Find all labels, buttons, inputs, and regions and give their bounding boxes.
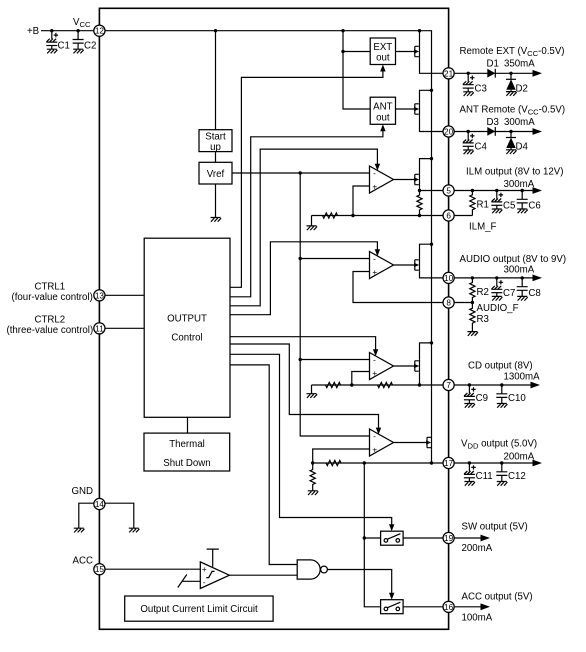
wire startup chain <box>215 31 217 218</box>
svg-text:Shut Down: Shut Down <box>163 458 210 469</box>
wire U4 noninverting feedback tap <box>313 449 370 463</box>
svg-text:Output Current Limit Circuit: Output Current Limit Circuit <box>140 604 258 615</box>
svg-text:ACC output (5V): ACC output (5V) <box>462 592 533 603</box>
capacitor C1 <box>46 31 70 54</box>
wire U5 output to NAND <box>229 574 297 576</box>
wire supply into SW switch <box>364 537 380 539</box>
svg-text:CTRL2: CTRL2 <box>35 314 66 325</box>
wire U2 noninverting feedback tap to pin 8 <box>353 272 443 303</box>
svg-text:C11: C11 <box>476 471 493 482</box>
svg-text:14: 14 <box>95 500 105 509</box>
switch S1 SW <box>381 531 404 545</box>
pin 21 <box>443 68 454 79</box>
threshold slash marker <box>178 575 187 588</box>
svg-text:+B: +B <box>27 26 39 37</box>
pin 13 <box>94 290 105 301</box>
transistor Q1 EXT (pin 21 driver) <box>396 45 420 59</box>
wire pin 17 output line <box>454 462 533 464</box>
node D2 junction <box>509 72 512 75</box>
transistor Q2 ANT (pin 20 driver) <box>396 102 420 116</box>
label CTRL2 <box>7 314 94 336</box>
svg-text:Vref: Vref <box>207 169 225 180</box>
svg-text:C5: C5 <box>503 201 515 212</box>
wire ILM divider to ground <box>311 216 313 226</box>
svg-text:C8: C8 <box>528 288 540 299</box>
svg-text:ANT Remote (VCC-0.5V): ANT Remote (VCC-0.5V) <box>460 104 566 116</box>
transistor Q4 AUDIO <box>394 258 420 272</box>
node junction C1 <box>50 29 53 32</box>
svg-text:-: - <box>373 432 376 441</box>
svg-text:7: 7 <box>446 381 451 390</box>
wire Q3 drain to pin 5 <box>420 186 444 190</box>
pin 6 <box>443 210 454 221</box>
wire pin 6 external line <box>454 215 472 217</box>
arrow pin 17 output <box>533 460 543 467</box>
node C9 junction <box>468 383 471 386</box>
wire enable SW switch <box>230 354 392 527</box>
node C6 junction <box>521 189 524 192</box>
arrow into ANT out <box>380 124 385 131</box>
wire enable ANT <box>230 128 383 296</box>
ground VDD divider <box>308 491 319 495</box>
block ANT out <box>370 97 395 124</box>
wire VDD supply to switches <box>364 463 380 607</box>
svg-text:C10: C10 <box>508 393 526 404</box>
node C11 junction <box>468 461 471 464</box>
svg-text:300mA: 300mA <box>504 179 535 190</box>
wire NAND output to ACC switch <box>327 570 391 596</box>
svg-text:C2: C2 <box>84 41 96 52</box>
op-amp U5 ACC comparator <box>200 562 229 589</box>
resistor VDD internal lower divider <box>310 463 315 491</box>
node C8 junction <box>521 276 524 279</box>
node ILM feedback line junction <box>418 214 421 217</box>
node Q5 source rail junction <box>430 341 433 344</box>
wire Q5 source to VCC rail <box>420 343 432 359</box>
svg-text:D2: D2 <box>516 84 528 95</box>
arrow into ACC switch <box>389 593 394 600</box>
wire EXT/ANT supply drop <box>343 31 370 109</box>
node Q2 source rail junction <box>430 89 433 92</box>
svg-text:OUTPUT: OUTPUT <box>167 314 207 325</box>
wire +B to pin 12 <box>41 30 94 32</box>
svg-text:out: out <box>376 53 390 64</box>
svg-text:ANT: ANT <box>373 102 392 113</box>
wire ILM feedback line to pin 6 <box>312 215 444 217</box>
svg-text:R3: R3 <box>477 314 489 325</box>
wire pin 16 output line <box>454 606 481 608</box>
svg-text:C3: C3 <box>475 84 487 95</box>
wire Q1 source to VCC <box>419 31 421 45</box>
svg-text:AUDIO_F: AUDIO_F <box>477 303 519 314</box>
wire SW switch to pin 19 <box>403 537 443 539</box>
svg-text:19: 19 <box>444 534 454 543</box>
block EXT out <box>370 38 395 65</box>
op-amp U1 ILM regulator <box>370 166 394 193</box>
node SW supply tap <box>363 536 366 539</box>
ground ILM divider <box>307 226 318 230</box>
svg-text:CD output (8V): CD output (8V) <box>468 361 533 372</box>
node CD plus-tap junction <box>350 383 353 386</box>
node ILM feedback plus-tap junction <box>351 214 354 217</box>
wire pin 19 output line <box>454 537 481 539</box>
svg-text:D1: D1 <box>487 59 499 70</box>
node C4 junction <box>467 130 470 133</box>
wire GND right branch <box>105 503 134 528</box>
transistor Q3 ILM <box>394 173 420 187</box>
wire enable CD <box>230 337 376 352</box>
block OUTPUT Control <box>144 238 230 417</box>
svg-text:R2: R2 <box>477 287 489 298</box>
svg-text:ILM output (8V to 12V): ILM output (8V to 12V) <box>466 166 563 177</box>
diode D1 <box>487 69 495 78</box>
wire ACC switch to pin 16 <box>403 606 443 608</box>
node junction C2 <box>76 29 79 32</box>
node C5 junction <box>495 189 498 192</box>
op-amp U4 VDD regulator <box>370 429 394 456</box>
svg-text:C7: C7 <box>503 288 515 299</box>
node CD drain junction <box>418 383 421 386</box>
arrow pin 21 output <box>533 70 543 77</box>
pin 5 <box>443 185 454 196</box>
wire Q4 source to VCC rail <box>420 244 432 258</box>
wire bus to AUDIO inverting input <box>300 258 369 260</box>
node R2 junction <box>471 276 474 279</box>
svg-text:12: 12 <box>95 27 105 36</box>
svg-text:300mA: 300mA <box>504 117 535 128</box>
capacitor C12 <box>496 463 525 486</box>
resistor R3 <box>470 303 489 332</box>
wire control to NAND input <box>230 365 297 565</box>
wire Q1 drain to pin 21 <box>420 58 444 73</box>
svg-text:+: + <box>372 446 377 455</box>
node ILM output divider junction <box>418 189 421 192</box>
pin 11 <box>94 323 105 334</box>
wire Q5 drain to feedback line <box>419 373 421 385</box>
svg-text:200mA: 200mA <box>462 543 493 554</box>
svg-text:1300mA: 1300mA <box>504 372 541 383</box>
wire pin 10 output line <box>454 277 533 279</box>
IC package outline <box>99 8 448 629</box>
pin 19 <box>443 532 454 543</box>
svg-text:-: - <box>373 356 376 365</box>
svg-text:+: + <box>372 268 377 277</box>
svg-text:21: 21 <box>444 69 454 78</box>
capacitor C9 <box>464 385 488 408</box>
wire Q4 drain to pin 10 <box>420 272 444 278</box>
ground CD divider <box>307 394 318 398</box>
block Thermal Shut Down <box>144 433 230 471</box>
svg-text:13: 13 <box>95 291 105 300</box>
svg-text:out: out <box>376 112 390 123</box>
node C3 junction <box>467 72 470 75</box>
svg-text:8: 8 <box>446 299 451 308</box>
wire CTRL2 to control block <box>105 327 144 329</box>
node C10 junction <box>500 383 503 386</box>
wire U1 noninverting feedback tap <box>353 186 370 216</box>
svg-text:17: 17 <box>444 459 454 468</box>
capacitor C6 <box>517 191 541 214</box>
arrow into U1 <box>375 164 380 171</box>
wire Vref output <box>232 172 370 174</box>
block Start up <box>199 130 232 153</box>
ground below Vref <box>211 218 222 222</box>
wire Vref vertical bus <box>300 173 369 436</box>
diode D4 <box>506 132 528 155</box>
pin 14 <box>94 498 105 509</box>
pull-up T symbol on U5 <box>207 549 219 567</box>
svg-text:C6: C6 <box>528 201 540 212</box>
node C12 junction <box>500 461 503 464</box>
wire control to thermal <box>187 417 189 433</box>
block Output Current Limit Circuit <box>125 596 273 621</box>
svg-text:6: 6 <box>446 212 451 221</box>
wire U3 noninverting feedback tap <box>352 372 370 386</box>
svg-text:C4: C4 <box>475 142 488 153</box>
node EXT input tap <box>341 50 344 53</box>
svg-text:100mA: 100mA <box>462 613 493 624</box>
svg-text:up: up <box>210 142 221 153</box>
node C7 junction <box>495 276 498 279</box>
capacitor C2 <box>73 31 97 54</box>
node bus-CD tap <box>299 358 302 361</box>
wire bus to CD inverting input <box>300 359 369 361</box>
svg-text:+: + <box>372 183 377 192</box>
transistor Q6 VDD <box>394 436 432 450</box>
diode D3 <box>487 127 495 136</box>
svg-text:AUDIO output (8V to 9V): AUDIO output (8V to 9V) <box>460 254 567 265</box>
arrow pin 19 output <box>481 535 491 542</box>
svg-text:D4: D4 <box>516 142 529 153</box>
capacitor C8 <box>517 278 541 301</box>
wire Q2 source to VCC rail <box>420 90 432 102</box>
node R3 junction <box>471 301 474 304</box>
arrow pin 16 output <box>481 603 491 610</box>
wire pin 5 output line <box>454 190 533 192</box>
capacitor C11 <box>464 463 493 486</box>
pin 12 <box>94 25 105 36</box>
wire Q2 drain to pin 20 <box>420 116 444 132</box>
svg-text:+: + <box>202 565 207 574</box>
capacitor C3 <box>463 73 487 96</box>
capacitor C5 <box>491 191 515 214</box>
capacitor C4 <box>463 132 488 155</box>
resistor CD internal upper divider <box>378 382 393 387</box>
svg-text:ILM_F: ILM_F <box>469 222 497 233</box>
gate U6 NAND <box>297 560 327 579</box>
resistor ILM internal lower divider <box>323 213 338 218</box>
svg-text:C12: C12 <box>508 471 526 482</box>
svg-text:+: + <box>372 369 377 378</box>
node bus-AUDIO tap <box>299 257 302 260</box>
arrow into U2 <box>375 249 380 256</box>
pin 16 <box>443 601 454 612</box>
arrow pin 20 output <box>533 128 543 135</box>
svg-text:(three-value control): (three-value control) <box>7 325 94 336</box>
svg-text:200mA: 200mA <box>504 452 535 463</box>
arrow pin 7 output <box>531 382 541 389</box>
arrow pin 5 output <box>533 187 543 194</box>
node VCC-Q21 junction <box>418 29 421 32</box>
wire Q3 source to VCC rail <box>420 159 432 173</box>
resistor R2 <box>470 278 489 303</box>
diode D2 <box>506 73 528 95</box>
pin 17 <box>443 457 454 468</box>
ground R3 <box>467 332 478 336</box>
wire VDD output line to pin 17 <box>313 462 443 464</box>
wire pin 7 output line <box>454 384 531 386</box>
svg-text:(four-value control): (four-value control) <box>12 292 93 303</box>
resistor VDD internal upper divider <box>326 460 341 465</box>
svg-text:C1: C1 <box>58 41 70 52</box>
arrow into SW switch <box>389 524 394 531</box>
wire enable AUDIO <box>230 242 377 315</box>
wire Q6 drain to pin 17 line <box>431 449 433 463</box>
arrow into U4 <box>376 428 381 435</box>
node Q4 source rail junction <box>430 243 433 246</box>
wire pin 8 external line <box>454 302 472 304</box>
node VDD plus-tap junction <box>311 461 314 464</box>
svg-text:C9: C9 <box>476 393 488 404</box>
wire ACC to comparator <box>105 568 200 570</box>
node VDD supply tap <box>363 461 366 464</box>
wire enable ILM <box>230 149 377 306</box>
svg-text:Remote EXT (VCC-0.5V): Remote EXT (VCC-0.5V) <box>460 46 565 58</box>
op-amp U2 AUDIO regulator <box>370 252 394 279</box>
resistor ILM internal upper divider <box>417 191 422 216</box>
op-amp U3 CD regulator <box>370 353 394 380</box>
arrow into U3 <box>373 349 378 356</box>
wire pin 21 output line <box>454 72 533 74</box>
svg-text:300mA: 300mA <box>504 264 535 275</box>
wire CD divider to ground <box>311 385 313 394</box>
svg-text:-: - <box>373 255 376 264</box>
svg-text:Thermal: Thermal <box>169 439 205 450</box>
svg-text:-: - <box>373 169 376 178</box>
wire U5 inverting stub <box>182 580 201 582</box>
node VDD drain junction <box>430 461 433 464</box>
arrow pin 10 output <box>533 275 543 282</box>
svg-text:15: 15 <box>95 565 105 574</box>
arrow into EXT out <box>380 65 385 72</box>
resistor CD internal lower divider <box>326 382 341 387</box>
node Vref bus tap <box>299 171 302 174</box>
wire enable EXT <box>230 69 383 288</box>
node D4 junction <box>509 130 512 133</box>
wire pin 20 output line <box>454 131 533 133</box>
capacitor C7 <box>491 278 515 301</box>
transistor Q5 CD <box>394 359 420 373</box>
capacitor C10 <box>496 385 526 408</box>
pin 7 <box>443 379 454 390</box>
pin 15 <box>94 564 105 575</box>
wire CD output line to pin 7 <box>312 384 444 386</box>
svg-text:11: 11 <box>95 324 104 333</box>
label CTRL1 <box>12 281 93 303</box>
node VCC-EXT/ANT junction <box>341 29 344 32</box>
wire VCC top rail <box>105 31 432 436</box>
pin 10 <box>443 272 454 283</box>
svg-text:EXT: EXT <box>373 42 392 53</box>
svg-text:5: 5 <box>446 187 451 196</box>
svg-text:20: 20 <box>444 128 454 137</box>
svg-text:10: 10 <box>444 274 454 283</box>
node R1 junction <box>471 189 474 192</box>
block Vref <box>199 162 232 184</box>
ground GND right <box>129 528 140 532</box>
wire enable VDD <box>230 344 379 430</box>
svg-text:ACC: ACC <box>73 555 93 566</box>
svg-text:R1: R1 <box>477 200 489 211</box>
resistor R1 <box>470 191 489 216</box>
svg-text:CTRL1: CTRL1 <box>35 281 66 292</box>
wire GND left branch <box>79 503 94 528</box>
pin 8 <box>443 297 454 308</box>
switch S2 ACC <box>381 600 404 614</box>
svg-text:D3: D3 <box>487 117 499 128</box>
svg-text:16: 16 <box>444 603 454 612</box>
svg-text:GND: GND <box>72 486 94 497</box>
svg-text:350mA: 350mA <box>504 59 535 70</box>
pin 20 <box>443 126 454 137</box>
node VCC-startup junction <box>214 29 217 32</box>
wire to EXT out input <box>343 51 370 53</box>
node Q3 source rail junction <box>430 157 433 160</box>
wire CTRL1 to control block <box>105 294 144 296</box>
svg-text:-: - <box>203 578 206 587</box>
svg-text:Control: Control <box>171 333 202 344</box>
svg-text:SW output (5V): SW output (5V) <box>462 522 528 533</box>
ground GND left <box>74 528 85 532</box>
